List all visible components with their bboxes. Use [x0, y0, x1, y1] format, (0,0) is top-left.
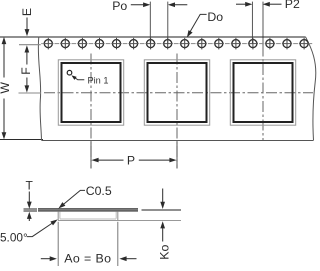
svg-text:E: E — [20, 8, 34, 16]
svg-text:C0.5: C0.5 — [86, 184, 112, 198]
svg-text:Ao = Bo: Ao = Bo — [64, 251, 111, 265]
svg-text:F: F — [19, 67, 33, 75]
svg-text:T: T — [26, 178, 34, 192]
svg-text:Po: Po — [112, 0, 127, 13]
svg-text:P: P — [127, 154, 135, 168]
svg-text:Pin 1: Pin 1 — [88, 76, 109, 86]
svg-text:Ko: Ko — [158, 245, 172, 260]
svg-text:W: W — [0, 82, 12, 94]
svg-text:5.00°: 5.00° — [0, 230, 28, 244]
svg-text:Do: Do — [207, 10, 223, 24]
svg-text:P2: P2 — [285, 0, 300, 11]
